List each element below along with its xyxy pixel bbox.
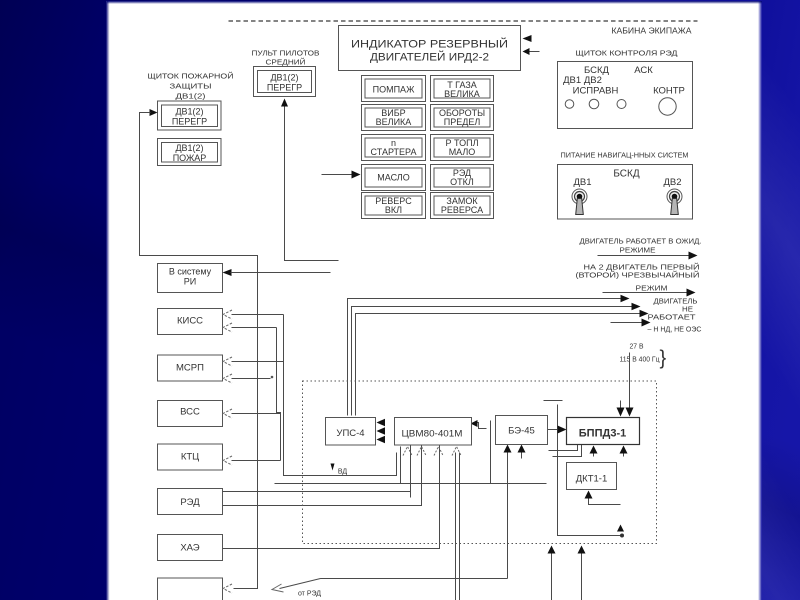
svg-text:РАБОТАЕТ: РАБОТАЕТ	[648, 315, 697, 322]
svg-text:УПС-4: УПС-4	[336, 428, 364, 439]
svg-text:ПОЖАР: ПОЖАР	[173, 153, 207, 163]
svg-text:ДКТ1-1: ДКТ1-1	[576, 474, 608, 485]
svg-text:ПЕРЕГР: ПЕРЕГР	[267, 83, 302, 93]
svg-text:ДВ1: ДВ1	[573, 177, 591, 188]
svg-text:ЦВМ80-401М: ЦВМ80-401М	[402, 429, 463, 440]
svg-text:ХАЭ: ХАЭ	[180, 543, 199, 554]
svg-text:ЩИТОК ПОЖАРНОЙ: ЩИТОК ПОЖАРНОЙ	[148, 72, 234, 81]
svg-text:ПУЛЬТ ПИЛОТОВ: ПУЛЬТ ПИЛОТОВ	[252, 49, 320, 58]
svg-text:РИ: РИ	[184, 277, 196, 287]
svg-text:ЩИТОК КОНТРОЛЯ РЭД: ЩИТОК КОНТРОЛЯ РЭД	[576, 49, 678, 58]
svg-text:ДВ2: ДВ2	[663, 177, 681, 188]
svg-text:РЕЖИМЕ: РЕЖИМЕ	[620, 248, 656, 255]
svg-text:ВЕЛИКА: ВЕЛИКА	[376, 117, 412, 127]
svg-text:115 В 400 Гц: 115 В 400 Гц	[620, 357, 660, 364]
svg-text:БППД3-1: БППД3-1	[579, 428, 626, 440]
svg-text:СРЕДНИЙ: СРЕДНИЙ	[266, 58, 306, 67]
svg-text:ДВИГАТЕЛЬ РАБОТАЕТ В ОЖИД.: ДВИГАТЕЛЬ РАБОТАЕТ В ОЖИД.	[580, 239, 702, 246]
svg-text:ВЕЛИКА: ВЕЛИКА	[444, 89, 480, 99]
svg-text:АСК: АСК	[634, 65, 653, 76]
svg-text:БСКД: БСКД	[613, 169, 639, 180]
svg-text:ДВИГАТЕЛЕЙ ИРД2-2: ДВИГАТЕЛЕЙ ИРД2-2	[370, 51, 489, 64]
svg-text:ДВ1(2): ДВ1(2)	[175, 107, 203, 117]
svg-text:РЕВЕРСА: РЕВЕРСА	[441, 205, 483, 215]
svg-text:РЭД: РЭД	[180, 497, 200, 508]
svg-text:ДВ1 ДВ2: ДВ1 ДВ2	[563, 75, 602, 86]
svg-text:ПИТАНИЕ НАВИГАЦ-ННЫХ СИСТЕМ: ПИТАНИЕ НАВИГАЦ-ННЫХ СИСТЕМ	[561, 153, 689, 160]
svg-text:ПОМПАЖ: ПОМПАЖ	[373, 85, 415, 95]
svg-text:от РЭД: от РЭД	[298, 591, 321, 598]
svg-text:КОНТР: КОНТР	[653, 86, 685, 97]
svg-text:РЕЖИМ: РЕЖИМ	[636, 286, 668, 293]
svg-text:КТЦ: КТЦ	[181, 452, 199, 463]
svg-text:ДВ1(2): ДВ1(2)	[176, 92, 207, 101]
svg-text:ИСПРАВН: ИСПРАВН	[573, 86, 619, 97]
svg-text:КИСС: КИСС	[177, 316, 203, 327]
svg-text:ЗАЩИТЫ: ЗАЩИТЫ	[170, 82, 212, 91]
svg-text:В систему: В систему	[169, 267, 212, 277]
svg-text:(ВТОРОЙ) ЧРЕЗВЫЧАЙНЫЙ: (ВТОРОЙ) ЧРЕЗВЫЧАЙНЫЙ	[576, 271, 700, 280]
svg-text:МАЛО: МАЛО	[449, 147, 476, 157]
svg-text:МСРП: МСРП	[176, 363, 204, 374]
svg-text:ИНДИКАТОР РЕЗЕРВНЫЙ: ИНДИКАТОР РЕЗЕРВНЫЙ	[351, 38, 508, 51]
svg-text:КАБИНА ЭКИПАЖА: КАБИНА ЭКИПАЖА	[612, 27, 693, 36]
svg-text:БЭ-45: БЭ-45	[508, 426, 535, 437]
svg-text:ВД: ВД	[338, 469, 348, 476]
svg-text:ВСС: ВСС	[180, 407, 200, 418]
svg-text:– Н НД, НЕ ОЭС: – Н НД, НЕ ОЭС	[648, 327, 702, 334]
svg-text:СТАРТЕРА: СТАРТЕРА	[371, 147, 417, 157]
svg-text:ДВ1(2): ДВ1(2)	[270, 73, 298, 83]
svg-text:НА 2 ДВИГАТЕЛЬ ПЕРВЫЙ: НА 2 ДВИГАТЕЛЬ ПЕРВЫЙ	[584, 263, 700, 272]
svg-text:МАСЛО: МАСЛО	[377, 173, 409, 183]
svg-text:ВКЛ: ВКЛ	[385, 205, 402, 215]
svg-text:27 В: 27 В	[630, 344, 644, 351]
svg-text:ДВ1(2): ДВ1(2)	[175, 143, 203, 153]
svg-text:ОТКЛ: ОТКЛ	[450, 177, 474, 187]
svg-text:ДВИГАТЕЛЬ: ДВИГАТЕЛЬ	[654, 299, 698, 306]
svg-text:}: }	[660, 348, 667, 370]
svg-text:НЕ: НЕ	[682, 307, 693, 314]
svg-text:ПЕРЕГР: ПЕРЕГР	[172, 117, 207, 127]
svg-text:ПРЕДЕЛ: ПРЕДЕЛ	[444, 117, 481, 127]
